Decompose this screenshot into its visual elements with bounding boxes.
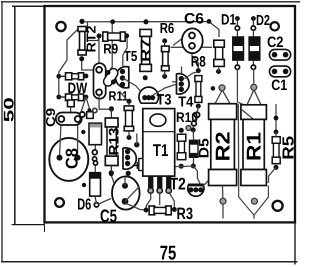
wire C5 to R3 (125, 192, 174, 210)
pad surround pentagon under R1 (239, 186, 269, 219)
label T4 (178, 94, 193, 110)
svg-text:R2: R2 (213, 132, 235, 162)
diode D1 (233, 16, 244, 102)
svg-text:RT2: RT2 (84, 26, 99, 53)
resistor R9 (97, 32, 130, 41)
polarity mark + bracket on T1 (134, 159, 143, 171)
value label D5 (196, 138, 212, 158)
node small pad rect (87, 108, 94, 118)
pad ring left of D3 (80, 112, 85, 117)
value label R2 (213, 132, 235, 162)
zener DW lower resistor (56, 94, 89, 112)
svg-text:R10: R10 (176, 109, 198, 125)
transistor T3 pad outline (139, 87, 159, 103)
node PCB board outline (45, 6, 296, 222)
svg-text:R9: R9 (103, 41, 118, 57)
capacitor C1 (269, 66, 290, 77)
jumper pad rect above C9 (68, 100, 75, 113)
label R11 (109, 89, 129, 104)
value label R1 (243, 132, 265, 161)
svg-text:D6: D6 (77, 196, 91, 213)
resistor R1 (power) (237, 84, 266, 185)
label C1 (271, 77, 287, 94)
resistor R5 (269, 116, 281, 183)
resistor R6 (162, 38, 170, 79)
value label C8 (62, 148, 81, 169)
svg-text:R1: R1 (243, 132, 265, 161)
svg-text:T3: T3 (157, 92, 172, 109)
label C2 (267, 34, 284, 51)
resistor R7 (140, 29, 152, 80)
label D1 (221, 12, 236, 29)
svg-text:C1: C1 (271, 77, 287, 94)
mounting hole top-left (56, 22, 65, 31)
svg-text:D2: D2 (256, 13, 270, 29)
value label C9 (43, 108, 58, 127)
svg-text:C8: C8 (62, 148, 81, 169)
wire through C6 (171, 39, 213, 71)
wire top bus (82, 22, 219, 72)
value label R5 (280, 136, 297, 160)
mounting hole bottom-right (273, 201, 283, 211)
label C6 (184, 10, 204, 27)
wire left diagonal from RT2 to DW (59, 29, 99, 97)
label R3 (177, 205, 194, 223)
label R6 (160, 21, 175, 37)
svg-text:R13: R13 (106, 127, 122, 155)
svg-text:R3: R3 (177, 205, 194, 223)
label T2 (170, 174, 186, 193)
svg-text:R8: R8 (191, 54, 206, 71)
wire top outer border (1, 1, 300, 3)
wire bottom dimension line 75 (1, 261, 298, 263)
transistor T2 (188, 179, 210, 196)
label R10 (176, 109, 198, 125)
node junction dots on top bus (79, 19, 211, 25)
wire C1 to R5 (275, 104, 277, 132)
svg-text:T2: T2 (170, 174, 186, 193)
label C5 (100, 206, 117, 226)
label T3 (157, 92, 172, 109)
svg-text:75: 75 (160, 243, 177, 265)
svg-text:R5: R5 (280, 136, 297, 160)
transistor T5 pad outline (115, 67, 128, 88)
wire D6 to C5 (99, 199, 112, 205)
pad oval with two holes (crystal) (94, 63, 106, 99)
resistor R8 (192, 68, 202, 130)
label T5 (124, 49, 138, 65)
value label RT2 (84, 26, 99, 53)
diode D2 (249, 16, 260, 84)
svg-text:R7: R7 (138, 39, 153, 62)
svg-text:D5: D5 (196, 138, 212, 158)
pins of T1 (148, 176, 171, 193)
label D2 (256, 13, 270, 29)
wire R9 right pad down (123, 38, 127, 68)
resistor R2 (power) (209, 85, 237, 219)
svg-text:50: 50 (1, 97, 17, 122)
dimension 50 (12, 6, 45, 224)
pad gray near R10 (186, 126, 191, 131)
IC T1 (TO-220) (143, 109, 175, 177)
capacitor C5 (109, 171, 140, 209)
transistor T4 pad outline (172, 67, 189, 95)
thermistor RT2 (78, 27, 86, 62)
resistor R11 (121, 93, 134, 141)
label DW (68, 80, 88, 97)
svg-text:D1: D1 (221, 12, 236, 29)
svg-text:T1: T1 (153, 141, 169, 160)
svg-text:T5: T5 (124, 49, 138, 65)
diode D5 (175, 128, 200, 184)
mounting hole top-right (271, 22, 279, 30)
diode D3 (gray band) (81, 123, 101, 161)
wire T5 to T3 (123, 78, 144, 95)
value label R7 (138, 39, 153, 62)
wire crystal to R13 (99, 95, 109, 109)
diode D6 (82, 161, 101, 207)
capacitor C9 pad oval (56, 113, 82, 126)
zener DW upper resistor (56, 73, 88, 80)
resistor R12 (unlabeled, right of R8) (214, 40, 225, 74)
label T1 (153, 141, 169, 160)
diagonal pad oval between crystal and T5 (102, 67, 120, 88)
svg-text:R11: R11 (109, 89, 129, 104)
label R8 (191, 54, 206, 71)
svg-text:R6: R6 (160, 21, 175, 37)
mounting hole bottom-left (55, 198, 64, 207)
label D6 (77, 196, 91, 213)
value label 50 (1, 97, 17, 122)
resistor R3 (144, 206, 177, 215)
svg-text:C5: C5 (100, 206, 117, 226)
value label 75 (160, 243, 177, 265)
capacitor C2 (269, 49, 290, 60)
transistor pad outline left of T1 (123, 134, 140, 176)
resistor R13 (105, 106, 118, 175)
resistor R10 (177, 128, 186, 169)
wire T4 to R8 (185, 72, 199, 79)
pad ring above D3 (93, 108, 97, 112)
wire T3 to T4 (153, 84, 177, 95)
value label R13 (106, 127, 122, 155)
capacitor C6 (182, 28, 203, 53)
label R9 (103, 41, 118, 57)
wire left outer border (1, 2, 3, 262)
capacitor C8 (49, 126, 88, 181)
dimension 75 extensions (45, 223, 296, 265)
svg-text:C6: C6 (184, 10, 204, 27)
